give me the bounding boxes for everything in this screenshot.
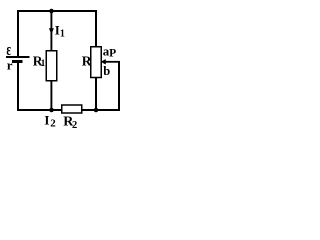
node bottom-right junction — [94, 108, 99, 113]
resistor R box (rheostat) — [91, 47, 102, 78]
svg-text:2: 2 — [72, 120, 77, 131]
resistor R2 box — [62, 105, 82, 113]
svg-text:R: R — [82, 53, 92, 68]
battery cell: short negative plate — [12, 60, 23, 63]
wire right (R branch) — [95, 10, 97, 48]
battery cell: long positive plate — [6, 56, 30, 58]
rheostat slider arrow line — [104, 61, 120, 63]
wire bottom — [17, 109, 120, 111]
node top junction — [49, 9, 54, 14]
current arrow I1 head — [49, 28, 54, 34]
wire left upper — [17, 10, 19, 57]
wire left lower — [17, 61, 19, 111]
svg-text:P: P — [109, 48, 116, 60]
resistor R1 box — [46, 51, 57, 81]
svg-text:1: 1 — [60, 29, 65, 40]
wire middle branch (R1 branch) — [50, 10, 52, 51]
svg-text:1: 1 — [41, 59, 46, 69]
svg-text:I: I — [44, 112, 49, 127]
svg-text:r: r — [7, 58, 13, 73]
wire top — [17, 10, 97, 12]
svg-text:b: b — [103, 64, 110, 78]
rheostat slider arrow head — [101, 59, 106, 64]
wire slider to bottom — [118, 61, 120, 111]
node bottom-left junction — [49, 108, 54, 113]
svg-text:2: 2 — [50, 117, 56, 129]
